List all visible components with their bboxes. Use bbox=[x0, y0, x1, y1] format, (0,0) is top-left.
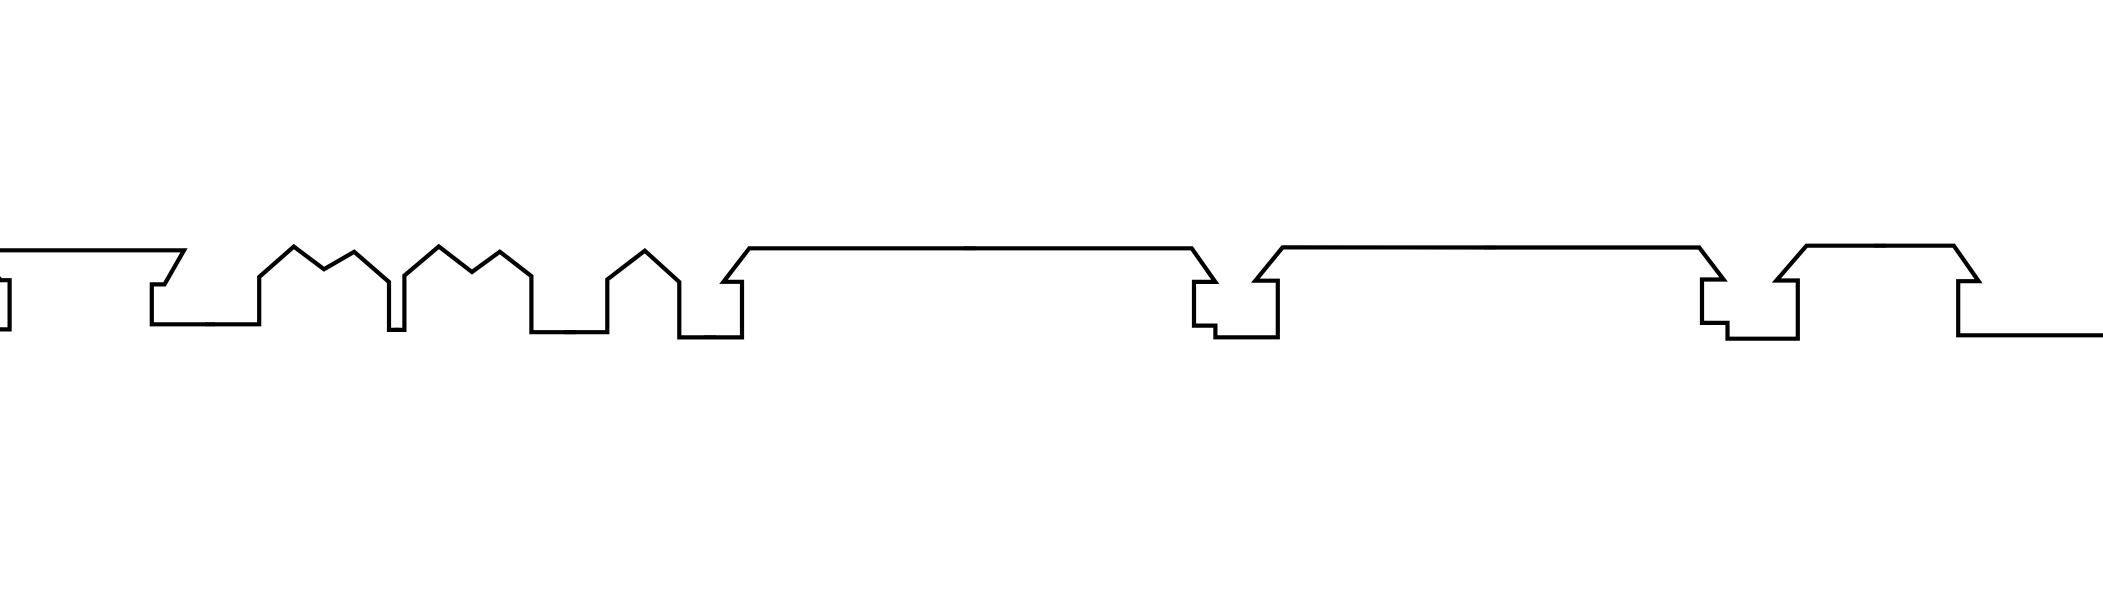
board 1 top face with bevelled end and groove left wall bbox=[0, 250, 215, 324]
panel 2 left hook and flat top bbox=[704, 248, 976, 337]
groove bottom and zigzag crown with slot bbox=[205, 247, 399, 330]
panel 3 right bevel, stepped joint, panel 4 left hook and flat top bbox=[1484, 246, 1886, 339]
panel 2 right bevel, stepped joint, panel 3 left hook and flat top bbox=[964, 247, 1496, 337]
house-shaped ridge between dips bbox=[564, 251, 716, 338]
panel 4 right bevel with step and baseline to right edge bbox=[1874, 246, 2103, 336]
slot right wall and second zigzag crown bbox=[395, 247, 577, 333]
clipped groove bracket at left edge bbox=[0, 268, 10, 329]
